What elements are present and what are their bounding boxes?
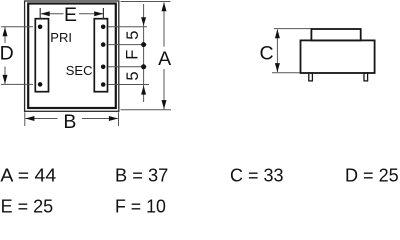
svg-text:B = 37: B = 37 xyxy=(115,166,168,186)
SEC pin 1 xyxy=(101,25,106,30)
dimension C: up arrow xyxy=(275,29,280,38)
dimension E: right line + arrow xyxy=(79,13,103,15)
svg-text:A = 44: A = 44 xyxy=(0,166,56,186)
SEC pin 2 extension line xyxy=(109,44,147,46)
SEC pin 3 extension line xyxy=(109,66,147,68)
transformer top view: outer case rect xyxy=(25,1,119,111)
dimension D: bottom extension line xyxy=(1,83,33,85)
svg-text:F = 10: F = 10 xyxy=(115,197,166,217)
chain junction dot at pin 2 xyxy=(141,42,146,47)
SEC pin 4 extension line xyxy=(109,84,150,86)
svg-text:E: E xyxy=(64,4,77,26)
side view: left leg xyxy=(309,73,313,81)
dimension B: left extension line xyxy=(24,112,26,126)
dimension B: left segment + left arrow xyxy=(26,118,58,120)
dimension C: bottom extension line xyxy=(272,72,300,74)
SEC pin 4 xyxy=(101,82,106,87)
dimension D: top segment + up arrow xyxy=(4,27,6,43)
dimension A: top extension line xyxy=(121,1,171,3)
SEC pin 2 xyxy=(101,42,106,47)
SEC pin strip xyxy=(94,19,107,92)
svg-text:C: C xyxy=(259,43,273,65)
svg-text:A: A xyxy=(158,48,171,70)
side view: right leg xyxy=(364,73,368,81)
dimension E: right tick xyxy=(102,8,104,19)
dimension C: line xyxy=(276,29,278,72)
svg-text:D: D xyxy=(0,43,14,65)
svg-text:5: 5 xyxy=(124,31,142,40)
svg-text:B: B xyxy=(63,111,76,133)
dimension B: right segment + right arrow xyxy=(82,118,118,120)
PRI pin strip xyxy=(35,19,48,92)
dimension B: right extension line xyxy=(118,112,120,126)
SEC pin 1 extension line xyxy=(109,26,148,28)
side view: bobbin top rect xyxy=(311,29,360,40)
chain bottom up-arrow xyxy=(141,86,146,95)
transformer top view: inner case rect xyxy=(28,4,116,109)
svg-text:E = 25: E = 25 xyxy=(1,197,54,217)
dimension E: left line + arrow xyxy=(41,13,64,15)
chain junction dot at pin 3 xyxy=(141,64,146,69)
dimension C: top extension line xyxy=(274,28,311,30)
side view: body rect xyxy=(301,40,375,73)
svg-text:F: F xyxy=(124,50,142,60)
dimension A: bottom extension line xyxy=(121,109,172,111)
SEC pin 3 xyxy=(101,65,106,70)
svg-text:5: 5 xyxy=(124,71,142,80)
dimension A: top segment + up arrow xyxy=(163,3,165,47)
PRI pin 2 xyxy=(38,82,43,87)
dimension D: top extension line xyxy=(1,26,33,28)
svg-text:PRI: PRI xyxy=(50,30,72,45)
svg-text:C = 33: C = 33 xyxy=(230,166,284,186)
dimension D: bottom segment + down arrow xyxy=(4,67,6,84)
dimension C: down arrow xyxy=(275,63,280,72)
svg-text:SEC: SEC xyxy=(66,63,93,78)
chain top down-arrow xyxy=(141,17,146,26)
PRI pin 1 xyxy=(38,25,43,30)
dimension E: left tick xyxy=(39,8,41,19)
dimension A: bottom segment + down arrow xyxy=(163,69,165,109)
pin pitch chain line xyxy=(143,4,145,102)
svg-text:D = 25: D = 25 xyxy=(345,166,399,186)
